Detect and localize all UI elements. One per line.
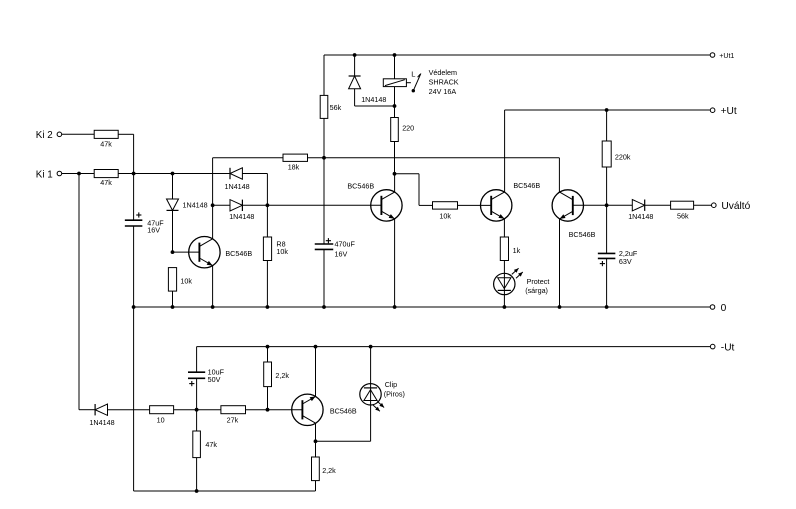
wire relay to 220 — [394, 87, 396, 118]
wire 470uF branch — [323, 158, 325, 244]
node -Ut Q5 emitter — [314, 345, 318, 349]
wire collector row — [316, 440, 371, 442]
svg-text:BC546B: BC546B — [347, 181, 374, 190]
wire base row to Q2 — [267, 204, 381, 206]
diode 1N4148 (relay clamp) — [349, 76, 387, 104]
node 10uF bottom — [195, 408, 199, 412]
svg-text:50V: 50V — [208, 375, 221, 384]
LED Protect sarga — [494, 268, 550, 295]
svg-text:1N4148: 1N4148 — [229, 212, 254, 221]
svg-text:+Ut: +Ut — [721, 106, 737, 117]
node Ki1/diode branch — [171, 172, 175, 176]
svg-text:BC546B: BC546B — [513, 181, 540, 190]
wire 47k leads — [196, 410, 198, 491]
svg-text:18k: 18k — [288, 163, 300, 172]
terminal Ki 1 — [36, 169, 62, 180]
wire Q1 collector up — [212, 205, 214, 239]
wire x133 down to cap — [133, 174, 135, 221]
svg-text:16V: 16V — [147, 225, 160, 234]
wire 10uF to node — [196, 378, 198, 409]
transistor Q4 BC546B — [481, 181, 541, 221]
diode 1N4148 vertical — [167, 199, 208, 210]
wire diode to 10 — [108, 409, 150, 411]
svg-text:1N4148: 1N4148 — [183, 200, 208, 209]
node top rail relay — [393, 53, 397, 57]
resistor 10k (Q1 base) — [168, 268, 192, 292]
capacitor 47uF 16V — [125, 212, 164, 234]
wire upper diode to corner — [242, 173, 267, 175]
wire 220 to collector node — [394, 142, 396, 174]
wire x79 drop — [79, 174, 95, 410]
svg-text:Protect: Protect — [527, 277, 550, 286]
resistor 220 — [391, 118, 415, 142]
wire +Ut rail — [505, 109, 711, 111]
wire Q2 collector — [394, 174, 396, 192]
wire 2.2k top — [267, 347, 269, 362]
resistor 56k (top) — [320, 95, 341, 118]
node R8 top — [266, 203, 270, 207]
svg-text:Ki 2: Ki 2 — [36, 130, 53, 141]
resistor 2,2k (bottom) — [312, 457, 337, 481]
svg-text:470uF: 470uF — [335, 239, 356, 248]
svg-text:1N4148: 1N4148 — [225, 182, 250, 191]
wire Q4 emitter — [503, 219, 505, 237]
wire 470uF to 0 rail — [323, 249, 325, 307]
wire 10k to Q4 base — [458, 204, 492, 206]
wire 10k to 0 rail — [172, 291, 174, 307]
wire x172 diode branch — [172, 174, 174, 199]
node 0rail x133 — [132, 305, 136, 309]
wire Q4 collector to +Ut — [504, 110, 506, 192]
node Q2 collector — [393, 172, 397, 176]
wire -Ut corner to 10uF — [196, 347, 198, 373]
wire Q5 collector down — [315, 423, 317, 441]
wire Q5 emitter up — [315, 347, 317, 397]
svg-text:1k: 1k — [513, 246, 521, 255]
node 0rail x504 — [503, 305, 507, 309]
svg-text:24V 16A: 24V 16A — [429, 87, 457, 96]
wire 2.2uF to 0 rail — [606, 258, 608, 307]
svg-text:BC546B: BC546B — [225, 249, 252, 258]
wire collector node right — [395, 174, 433, 206]
svg-text:1N4148: 1N4148 — [628, 212, 653, 221]
svg-text:2,2k: 2,2k — [275, 371, 289, 380]
svg-text:16V: 16V — [335, 250, 348, 259]
svg-text:BC546B: BC546B — [330, 407, 357, 416]
resistor 18k — [283, 154, 308, 172]
svg-text:Clip: Clip — [385, 380, 397, 389]
svg-text:56k: 56k — [677, 211, 689, 220]
wire 56k to terminal — [694, 204, 712, 206]
svg-text:2,2k: 2,2k — [322, 466, 336, 475]
diode 1N4148 (output) — [628, 200, 653, 222]
wire Q1 base — [173, 251, 200, 253]
transistor Q1 BC546B — [189, 237, 253, 268]
transistor Q5 BC546B — [292, 394, 357, 425]
svg-text:L: L — [411, 70, 415, 79]
svg-text:63V: 63V — [619, 257, 632, 266]
node 0rail x172 — [171, 305, 175, 309]
wire diode to Q1 base — [172, 211, 174, 253]
wire 18k line right — [308, 157, 560, 159]
node bottom rail x196 — [195, 489, 199, 493]
diode 1N4148 upper (cathode left) — [225, 168, 250, 191]
wire diode to relay node — [355, 89, 395, 106]
relay coil SHRACK — [383, 79, 411, 87]
wire Ki2 to resistor — [62, 133, 94, 135]
svg-text:1N4148: 1N4148 — [361, 95, 386, 104]
node Ki1/Ki2 join — [132, 172, 136, 176]
wire 220k top — [606, 110, 608, 141]
svg-text:47k: 47k — [100, 139, 112, 148]
resistor 47k (Ki2) — [94, 130, 118, 148]
wire Q3 emitter down — [559, 219, 561, 307]
wire Q3 collector corner — [558, 158, 560, 192]
svg-text:27k: 27k — [227, 416, 239, 425]
node -Ut LED — [369, 345, 373, 349]
node Ki1/branch — [77, 172, 81, 176]
resistor 10k (coupling) — [433, 202, 458, 221]
capacitor 470uF 16V — [315, 238, 356, 258]
svg-text:220: 220 — [402, 123, 414, 132]
svg-text:220k: 220k — [615, 153, 631, 162]
svg-text:(Piros): (Piros) — [384, 389, 405, 398]
terminal Uváltó — [712, 201, 751, 212]
wire Ki2 resistor to corner — [118, 133, 133, 135]
svg-text:0: 0 — [721, 303, 727, 314]
node 0rail x267 — [266, 305, 270, 309]
wire 56k to 18k line — [323, 118, 325, 157]
wire top +Ut1 rail — [324, 54, 710, 56]
wire lower diode to R8 node — [242, 204, 267, 206]
wire cap to 0 rail — [133, 226, 135, 307]
wire LED drop — [370, 347, 372, 442]
relay contact switch — [411, 70, 421, 93]
node 0rail x324 — [322, 305, 326, 309]
svg-text:BC546B: BC546B — [569, 230, 596, 239]
svg-text:Uváltó: Uváltó — [721, 201, 750, 212]
svg-text:47k: 47k — [205, 440, 217, 449]
svg-text:10k: 10k — [439, 212, 451, 221]
node Q1 base junction — [171, 250, 175, 254]
resistor 27k — [221, 406, 246, 425]
node 0rail x394 — [393, 305, 397, 309]
svg-text:10k: 10k — [276, 247, 288, 256]
wire top rail corner down — [323, 55, 325, 95]
wire 18k corner down — [212, 158, 214, 206]
terminal +Ut1 — [710, 53, 734, 60]
svg-text:1N4148: 1N4148 — [89, 418, 114, 427]
svg-text:+Ut1: +Ut1 — [719, 53, 734, 60]
node 2.2k bottom — [266, 408, 270, 412]
wire 1k to LED — [503, 261, 505, 308]
node 220k bottom — [605, 203, 609, 207]
diode 1N4148 (bottom, cathode left) — [89, 404, 114, 427]
resistor 2,2k (left) — [264, 362, 290, 387]
svg-text:Ki 1: Ki 1 — [36, 169, 53, 180]
node 0rail x212 — [211, 305, 215, 309]
capacitor 2,2uF 63V — [598, 249, 638, 266]
node 0rail x606 — [605, 305, 609, 309]
resistor 47k (Ki1) — [94, 170, 118, 188]
resistor 47k (bottom) — [193, 431, 218, 458]
terminal +Ut — [710, 106, 737, 117]
node relay/diode — [393, 104, 397, 108]
wire corner down x133 — [133, 134, 135, 173]
wire x133 lower drop — [134, 307, 316, 491]
wire base row left — [213, 204, 230, 206]
svg-text:(sárga): (sárga) — [525, 286, 548, 295]
resistor R8 10k — [263, 237, 288, 261]
wire relay top lead — [394, 55, 396, 79]
node +Ut 220k — [605, 108, 609, 112]
wire -Ut rail — [197, 346, 711, 348]
wire Q2 emitter — [394, 219, 396, 307]
wire R8 leads — [266, 205, 268, 307]
svg-text:Védelem: Védelem — [429, 68, 457, 77]
wire 2.2k bottom leads — [315, 441, 317, 491]
node Q5 collector — [314, 439, 318, 443]
resistor 56k (output) — [671, 201, 694, 220]
wire Ki1 line — [62, 173, 230, 175]
node -Ut 2.2k — [266, 345, 270, 349]
diode 1N4148 lower (anode left) — [229, 200, 254, 221]
wire diode drop — [354, 55, 356, 76]
svg-text:10: 10 — [157, 416, 165, 425]
wire 18k line left — [213, 157, 283, 159]
wire 2.2k bottom — [267, 387, 269, 410]
node lower diode row left — [211, 203, 215, 207]
wire 0 rail — [134, 306, 711, 308]
node 0rail x559 — [558, 305, 562, 309]
wire diode to 56k — [645, 204, 671, 206]
wire 220k bottom — [606, 167, 608, 253]
wire Q1 emitter down — [212, 266, 214, 307]
node top rail diode — [353, 53, 357, 57]
capacitor 10uF 50V — [188, 367, 225, 386]
svg-text:47k: 47k — [100, 178, 112, 187]
terminal Ki 2 — [36, 130, 62, 141]
wire base node to diode — [607, 204, 633, 206]
resistor 220k — [602, 141, 631, 167]
transistor Q2 BC546B — [347, 181, 402, 221]
resistor 1k — [500, 237, 520, 261]
svg-text:SHRACK: SHRACK — [429, 78, 459, 87]
resistor 10 — [150, 406, 174, 425]
node 18k/470uF — [322, 156, 326, 160]
terminal 0 — [710, 303, 726, 314]
label Védelem SHRACK 24V 16A — [429, 68, 459, 96]
svg-text:10k: 10k — [180, 276, 192, 285]
LED Clip Piros — [360, 380, 405, 412]
transistor Q3 BC546B — [552, 190, 595, 239]
wire 27k to Q5 base — [246, 409, 303, 411]
svg-text:-Ut: -Ut — [721, 342, 735, 353]
svg-text:56k: 56k — [330, 103, 342, 112]
wire Q3 base right — [573, 204, 607, 206]
terminal -Ut — [710, 342, 734, 353]
wire 10 to 27k — [174, 409, 221, 411]
wire corner down x267 — [266, 174, 268, 206]
